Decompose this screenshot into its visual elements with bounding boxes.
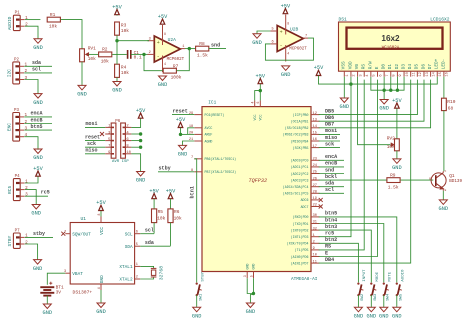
ground at SW5 [393, 307, 401, 312]
wire [25, 177, 38, 184]
svg-text:PB7(XTAL2/TOSC2): PB7(XTAL2/TOSC2) [205, 170, 237, 174]
svg-text:1: 1 [346, 74, 350, 77]
wire [116, 35, 118, 41]
resistor R8 [196, 46, 209, 51]
svg-text:SW2: SW2 [361, 293, 365, 301]
svg-text:AVR ISP: AVR ISP [112, 160, 129, 164]
resistor R7 [163, 68, 176, 73]
svg-text:RV2: RV2 [387, 135, 395, 141]
svg-text:XTAL2: XTAL2 [119, 278, 133, 283]
wire [140, 233, 154, 235]
svg-text:28: 28 [313, 191, 317, 195]
wire [319, 186, 344, 188]
svg-text:GND: GND [31, 211, 41, 217]
svg-text:3: 3 [359, 74, 363, 76]
resistor R10 [442, 98, 447, 110]
svg-text:E: E [325, 250, 328, 256]
svg-text:P6: P6 [115, 120, 121, 124]
svg-text:15: 15 [313, 132, 317, 136]
ground at LCD VSS [340, 98, 348, 103]
svg-text:GND: GND [379, 106, 389, 112]
svg-text:E: E [375, 66, 380, 69]
ground at Q1 emitter [439, 200, 447, 205]
wire [131, 154, 140, 172]
svg-text:2: 2 [25, 240, 28, 245]
svg-text:(ICP)PB0: (ICP)PB0 [293, 113, 309, 117]
svg-text:3: 3 [25, 76, 28, 81]
wire [319, 133, 340, 135]
svg-text:SDA: SDA [125, 245, 133, 250]
svg-text:ENC: ENC [6, 123, 12, 131]
svg-text:C: C [445, 170, 447, 173]
svg-text:4: 4 [287, 52, 289, 56]
svg-text:GND: GND [252, 40, 262, 46]
+5V supply at R6 [168, 194, 173, 199]
junction [139, 146, 142, 149]
ground at SW4 [380, 307, 388, 312]
svg-text:2: 2 [126, 125, 129, 129]
svg-text:GND: GND [252, 264, 256, 270]
svg-text:1: 1 [136, 263, 138, 267]
resistor R1 [47, 17, 60, 22]
ground at U2B pin5 [253, 34, 261, 39]
P6 pins row 2 [105, 140, 111, 142]
svg-text:encA: encA [31, 111, 43, 117]
svg-text:D4: D4 [408, 64, 413, 70]
svg-text:+5V: +5V [158, 14, 168, 20]
+5V supply at AVCC [178, 122, 183, 127]
capacitor C1 [127, 50, 129, 59]
svg-text:LED+: LED+ [435, 58, 440, 69]
wire [343, 77, 345, 98]
wire [131, 146, 140, 148]
svg-text:4: 4 [164, 62, 166, 66]
svg-text:btn2: btn2 [325, 237, 337, 243]
svg-text:GND: GND [158, 82, 168, 88]
svg-text:3V: 3V [56, 289, 62, 295]
wire [116, 77, 118, 81]
svg-text:MUTE: MUTE [389, 271, 393, 281]
svg-text:9: 9 [399, 74, 403, 76]
svg-text:1: 1 [182, 45, 184, 49]
svg-text:VDD: VDD [348, 61, 353, 69]
svg-text:D5: D5 [415, 64, 420, 70]
ground at SW3 [367, 307, 375, 312]
svg-text:(AIN1)PD7: (AIN1)PD7 [291, 261, 309, 265]
svg-text:GND: GND [245, 264, 249, 270]
svg-text:31: 31 [313, 221, 317, 225]
wire [170, 199, 172, 209]
svg-text:2: 2 [25, 69, 28, 74]
ground at P4 [32, 205, 40, 210]
svg-text:+5V: +5V [136, 108, 146, 114]
+5V supply at R3 [115, 10, 120, 15]
svg-text:+: + [280, 30, 283, 36]
svg-text:7: 7 [108, 145, 110, 149]
svg-text:BD139: BD139 [449, 179, 462, 184]
IC U1 DS1307 body [70, 223, 134, 285]
svg-text:3: 3 [25, 193, 28, 198]
wire [401, 179, 434, 181]
svg-text:D3: D3 [401, 64, 406, 70]
wire [25, 236, 53, 238]
svg-text:sck: sck [87, 141, 96, 147]
wire [319, 192, 344, 194]
svg-text:R2: R2 [102, 47, 108, 53]
ground at P6 [137, 172, 145, 177]
resistor R6 [168, 209, 173, 223]
svg-text:ADC7: ADC7 [301, 205, 309, 209]
ground at RV2 [393, 159, 401, 164]
U1 pin 7 SQW/OUT (n.c.) [65, 233, 70, 235]
svg-text:scl: scl [32, 67, 41, 73]
svg-text:GND: GND [246, 309, 256, 315]
svg-text:(INT0)PD2: (INT0)PD2 [291, 228, 309, 232]
svg-text:(ADC3)PC3: (ADC3)PC3 [291, 178, 309, 182]
U1 VCC pin 8 [100, 217, 102, 223]
IC U1/IC1 ATMEGA8 body [202, 107, 311, 272]
svg-text:4: 4 [126, 131, 129, 135]
svg-text:DS1: DS1 [339, 16, 348, 22]
switch SW5 (AUDIO) [396, 269, 406, 301]
svg-text:+: + [157, 40, 160, 46]
svg-text:2: 2 [136, 276, 138, 280]
svg-text:GND: GND [340, 104, 350, 110]
wire [371, 77, 404, 91]
wire [396, 77, 398, 91]
svg-text:11: 11 [313, 260, 317, 264]
+5V supply at U2A [160, 19, 165, 24]
svg-text:14: 14 [432, 71, 436, 76]
svg-text:U2B: U2B [290, 27, 299, 33]
svg-text:+5V: +5V [281, 3, 291, 9]
svg-text:4: 4 [251, 102, 255, 104]
svg-text:16x2: 16x2 [381, 34, 400, 43]
svg-text:4: 4 [97, 287, 101, 289]
ground at P7 [34, 260, 42, 265]
junction [389, 89, 392, 92]
svg-text:INPUT: INPUT [363, 269, 367, 282]
svg-text:-: - [157, 52, 160, 59]
node: opamp inverting input [142, 53, 145, 56]
wire [144, 53, 148, 55]
wire [350, 77, 352, 84]
node: opamp output [188, 47, 191, 50]
wire [25, 190, 36, 205]
svg-text:(XCK/T0)PD4: (XCK/T0)PD4 [287, 242, 309, 246]
wire [319, 224, 384, 283]
svg-text:encA: encA [325, 154, 338, 160]
wire [443, 77, 445, 99]
svg-text:TQFP32: TQFP32 [248, 178, 267, 184]
svg-text:STBY: STBY [202, 271, 206, 281]
svg-text:2: 2 [149, 51, 151, 55]
svg-text:bckl: bckl [325, 174, 337, 180]
ground at LCD R/W D0-D3 [380, 100, 388, 105]
svg-text:7: 7 [305, 35, 307, 39]
wire [177, 49, 190, 71]
svg-text:26: 26 [313, 177, 317, 181]
svg-text:AUDIO: AUDIO [7, 16, 13, 30]
svg-text:8: 8 [164, 32, 166, 36]
wire [390, 77, 392, 91]
svg-text:10k: 10k [174, 215, 182, 221]
svg-text:1: 1 [313, 234, 315, 238]
svg-text:MCP602T: MCP602T [289, 48, 307, 52]
svg-text:sda: sda [145, 240, 154, 246]
wire [319, 80, 378, 257]
svg-text:RV1: RV1 [88, 46, 96, 52]
svg-text:(ADC1)PC1: (ADC1)PC1 [291, 165, 309, 169]
U1 XTAL2 pin 2 [135, 278, 141, 280]
wire [265, 38, 313, 60]
ground at RV1 [78, 85, 86, 90]
svg-text:32768: 32768 [158, 266, 164, 281]
+5V supply at U1 [99, 205, 104, 210]
+5V supply at U2B [283, 9, 288, 14]
svg-text:R10: R10 [447, 99, 455, 105]
wire [259, 84, 261, 100]
svg-text:MCP602T: MCP602T [167, 58, 185, 62]
svg-text:-: - [279, 42, 282, 49]
svg-text:7: 7 [191, 156, 193, 160]
svg-text:VBAT: VBAT [72, 272, 83, 277]
svg-text:2: 2 [353, 74, 357, 76]
op-amp U2B [270, 15, 308, 62]
svg-text:Q1: Q1 [449, 173, 455, 179]
svg-text:1.5k: 1.5k [388, 184, 399, 190]
wire [319, 76, 438, 84]
svg-text:miso: miso [86, 148, 98, 154]
svg-text:25: 25 [313, 171, 317, 175]
wire [383, 90, 385, 99]
svg-text:WC1602A: WC1602A [382, 46, 400, 50]
svg-text:P3: P3 [14, 109, 20, 113]
svg-text:GND: GND [392, 165, 402, 171]
svg-text:btn4: btn4 [325, 217, 337, 223]
ground at P2 [34, 94, 42, 99]
wire [185, 48, 189, 50]
svg-text:GND: GND [112, 88, 122, 94]
svg-text:snd: snd [325, 167, 334, 173]
svg-text:+5V: +5V [314, 65, 324, 71]
svg-text:RS: RS [362, 64, 367, 70]
LCD DS1 pins [343, 71, 345, 77]
svg-text:R4: R4 [121, 65, 127, 71]
svg-text:1: 1 [25, 234, 28, 239]
svg-text:DB5: DB5 [325, 108, 334, 114]
switch SW3 (MODE) [370, 271, 380, 300]
svg-text:R7: R7 [173, 63, 179, 69]
svg-text:I2C: I2C [6, 69, 12, 77]
svg-text:ADC6: ADC6 [301, 198, 309, 202]
op-amp U2A [148, 25, 186, 72]
wire / net snd [209, 48, 226, 50]
wire [100, 290, 102, 303]
wire [85, 146, 105, 148]
svg-text:+5V: +5V [96, 200, 106, 206]
svg-text:GND: GND [33, 100, 43, 106]
svg-text:+5V: +5V [112, 4, 122, 10]
wire [319, 140, 340, 142]
svg-text:mosi: mosi [86, 121, 98, 127]
IC1 GND pins [246, 272, 248, 279]
svg-text:LED-: LED- [441, 59, 446, 70]
wire [170, 223, 172, 246]
svg-text:P4: P4 [15, 175, 21, 179]
svg-text:10k: 10k [121, 28, 129, 34]
connector P1 [7, 12, 28, 31]
svg-text:1.5k: 1.5k [197, 53, 208, 59]
svg-text:SW4: SW4 [387, 293, 391, 301]
wire [24, 65, 52, 67]
svg-text:AGND: AGND [205, 139, 213, 143]
svg-text:D6: D6 [421, 64, 426, 70]
svg-text:8: 8 [126, 145, 129, 149]
wire [47, 273, 65, 285]
svg-text:btn1: btn1 [189, 186, 195, 198]
wire [319, 80, 418, 115]
svg-text:3: 3 [25, 126, 28, 131]
svg-text:1: 1 [25, 16, 28, 21]
svg-text:P7: P7 [15, 229, 21, 233]
U1 VBAT pin 3 [65, 272, 70, 274]
wire [112, 53, 127, 55]
connector P2 [6, 58, 27, 84]
wire [319, 243, 359, 282]
svg-text:snd: snd [211, 42, 220, 48]
svg-text:(SCK)PB5: (SCK)PB5 [293, 146, 309, 150]
connector P3 [6, 109, 27, 141]
battery BT1 [40, 282, 64, 296]
wire [140, 277, 153, 279]
junction [139, 132, 142, 135]
no-connect P6 pin3 [100, 132, 104, 136]
svg-text:68: 68 [448, 105, 454, 111]
svg-text:btn3: btn3 [325, 224, 337, 230]
svg-text:D2: D2 [395, 64, 400, 70]
+5V supply at IC1 [258, 79, 263, 84]
junction AREF +5V [179, 133, 182, 136]
wire [117, 40, 149, 42]
svg-text:rc5: rc5 [41, 190, 50, 196]
wire [24, 80, 38, 94]
svg-text:(MOSI/OC2)PB3: (MOSI/OC2)PB3 [283, 133, 309, 137]
svg-text:GND: GND [96, 309, 106, 315]
svg-text:0.1: 0.1 [134, 55, 142, 61]
svg-text:IC1: IC1 [208, 100, 216, 105]
wire [370, 295, 372, 307]
wire [158, 171, 194, 173]
svg-text:XTAL1: XTAL1 [119, 265, 133, 270]
svg-text:+5V: +5V [33, 166, 43, 172]
resistor R2 [99, 52, 112, 57]
svg-text:GND: GND [367, 314, 377, 320]
wire [85, 126, 105, 128]
svg-text:RC5: RC5 [7, 186, 13, 194]
svg-text:GND: GND [178, 152, 188, 158]
wire [25, 26, 38, 39]
svg-text:(RXD)PD0: (RXD)PD0 [293, 215, 309, 219]
wire [357, 295, 359, 307]
wire [140, 266, 153, 268]
junction [396, 89, 399, 92]
wire [153, 223, 155, 234]
svg-text:AVCC: AVCC [205, 126, 213, 130]
wire [24, 123, 52, 125]
svg-text:VCC: VCC [100, 227, 105, 235]
wire [24, 137, 38, 150]
svg-text:V0: V0 [355, 64, 360, 70]
svg-text:2: 2 [25, 23, 28, 28]
wire [358, 77, 391, 145]
U1 GND pin 4 [100, 284, 102, 290]
svg-text:2: 2 [313, 241, 315, 245]
svg-text:(ADC2)PC2: (ADC2)PC2 [291, 172, 309, 176]
wire [46, 296, 48, 304]
svg-text:+5V: +5V [166, 188, 176, 194]
wire [131, 140, 140, 142]
svg-text:sda: sda [325, 181, 334, 187]
svg-text:(MISO)PB4: (MISO)PB4 [291, 139, 309, 143]
ground at IC1 [246, 303, 254, 308]
P6 pins row 4 [105, 153, 111, 155]
wire [116, 14, 118, 17]
svg-text:stby: stby [33, 231, 45, 237]
svg-text:4: 4 [366, 74, 370, 77]
wire [140, 245, 170, 247]
wire [25, 195, 48, 197]
svg-text:10: 10 [406, 72, 410, 76]
resistor R4 [115, 64, 120, 77]
svg-text:VCC: VCC [253, 115, 257, 121]
svg-text:24: 24 [313, 164, 317, 168]
svg-text:D1: D1 [388, 64, 393, 70]
wire [81, 62, 83, 86]
svg-text:16: 16 [446, 72, 450, 76]
svg-text:30: 30 [313, 214, 317, 218]
svg-text:32: 32 [313, 227, 317, 231]
wire [443, 111, 445, 172]
svg-text:7: 7 [386, 74, 390, 76]
junction GND pair [252, 292, 255, 295]
connector P6 AVR ISP [111, 120, 129, 164]
wire [25, 19, 41, 21]
svg-text:(ADC0)PC0: (ADC0)PC0 [291, 159, 309, 163]
svg-text:(ADC4/SDA)PC4: (ADC4/SDA)PC4 [283, 185, 309, 189]
IC1 left pins [194, 114, 202, 116]
svg-text:VCC: VCC [259, 115, 263, 121]
svg-text:5: 5 [373, 74, 377, 76]
wire [319, 217, 397, 283]
svg-text:6: 6 [256, 102, 260, 104]
wire [180, 128, 182, 135]
svg-text:sda: sda [32, 60, 41, 66]
svg-text:GND: GND [33, 266, 43, 272]
svg-text:R1: R1 [50, 12, 56, 18]
svg-text:21: 21 [189, 138, 193, 142]
svg-text:GND: GND [439, 206, 449, 212]
wire [383, 77, 385, 91]
wire [194, 159, 196, 283]
ground at P3 [34, 149, 42, 154]
svg-text:GND: GND [33, 155, 43, 161]
wire [188, 128, 195, 135]
no-connect ADC7 [319, 205, 323, 209]
svg-text:(AIN0)PD6: (AIN0)PD6 [291, 255, 309, 259]
svg-text:1: 1 [25, 63, 28, 68]
svg-text:+5V: +5V [392, 98, 402, 104]
